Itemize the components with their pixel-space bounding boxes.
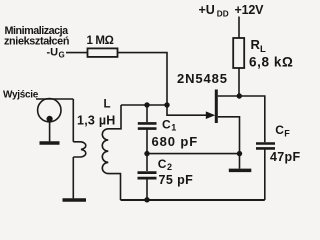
node gate riser junction (164, 102, 169, 107)
wire link coil to ground (72, 157, 74, 198)
svg-text:L: L (260, 44, 266, 55)
wire resistor R to gate node (118, 53, 207, 116)
svg-text:47pF: 47pF (270, 150, 300, 164)
inductor L 1,3µH (102, 105, 121, 200)
wire source junction to ground (239, 154, 241, 169)
wire output through jack (36, 98, 73, 100)
node -UG (gate bias input) (47, 47, 65, 60)
wire jack shell to ground (49, 119, 51, 141)
svg-text:DD: DD (217, 9, 229, 18)
transistor Q1 gate arrowhead (206, 111, 215, 119)
svg-text:1: 1 (171, 123, 176, 133)
svg-text:R: R (251, 37, 261, 52)
svg-text:75 pF: 75 pF (159, 173, 194, 187)
transistor Q1 drain lead (218, 95, 239, 97)
label C2 (158, 157, 172, 172)
wire +12V supply to RL (238, 17, 240, 39)
svg-text:6,8 kΩ: 6,8 kΩ (249, 55, 293, 70)
connector jack circle (38, 99, 61, 122)
svg-text:1,3 µH: 1,3 µH (77, 113, 116, 127)
capacitor CF (256, 144, 275, 149)
wire jack to link coil (72, 99, 74, 142)
node C2 rail junction (144, 197, 149, 202)
node drain junction (237, 93, 242, 98)
resistor RL (233, 38, 244, 68)
svg-text:1 MΩ: 1 MΩ (87, 35, 114, 47)
wire C2 bottom to rail (146, 178, 148, 200)
capacitor C2 (138, 173, 157, 179)
transistor Q1 2N5485 JFET channel bar (215, 90, 218, 124)
svg-text:L: L (104, 99, 111, 111)
wire -UG to resistor R (66, 52, 88, 54)
wire C2 top (146, 154, 148, 171)
wire C1 top (146, 105, 148, 122)
svg-text:zniekształceń: zniekształceń (4, 35, 69, 47)
ground source (229, 169, 252, 173)
transistor Q1 source lead (218, 117, 240, 154)
ground jack shell (40, 141, 60, 145)
node midpoint left (144, 151, 149, 156)
wire drain to CF branch (239, 96, 264, 142)
wire bottom rail (121, 199, 265, 201)
wire RL to drain node (238, 68, 240, 96)
svg-text:C: C (275, 123, 284, 137)
svg-text:F: F (284, 129, 290, 139)
svg-text:G: G (59, 51, 65, 60)
svg-text:C: C (158, 157, 167, 171)
label C1 (162, 117, 176, 132)
label Minimalizacja zniekształceń (4, 25, 69, 48)
wire source line to C1/C2 midpoint (147, 153, 240, 155)
svg-text:+12V: +12V (235, 3, 265, 17)
wire CF to bottom rail (264, 148, 266, 200)
ground link coil (63, 198, 87, 202)
label RL (251, 37, 267, 55)
wire top rail tank (121, 104, 167, 106)
svg-text:-U: -U (47, 47, 59, 59)
svg-text:2: 2 (167, 162, 172, 172)
svg-text:Wyjście: Wyjście (3, 89, 39, 100)
svg-text:2N5485: 2N5485 (177, 71, 228, 86)
node tank top / C1 junction (144, 102, 149, 107)
wire C1 bottom to source line (146, 129, 148, 154)
node midpoint right / source junction (237, 151, 242, 156)
capacitor C1 (138, 123, 157, 128)
resistor R 1MΩ (88, 48, 118, 57)
label +UDD (199, 3, 229, 18)
label CF (275, 123, 290, 139)
node jack shell pin (47, 116, 53, 122)
svg-text:C: C (162, 117, 171, 131)
svg-text:+U: +U (199, 3, 215, 17)
inductor link coupling coil (73, 142, 86, 157)
svg-text:680 pF: 680 pF (152, 134, 199, 149)
